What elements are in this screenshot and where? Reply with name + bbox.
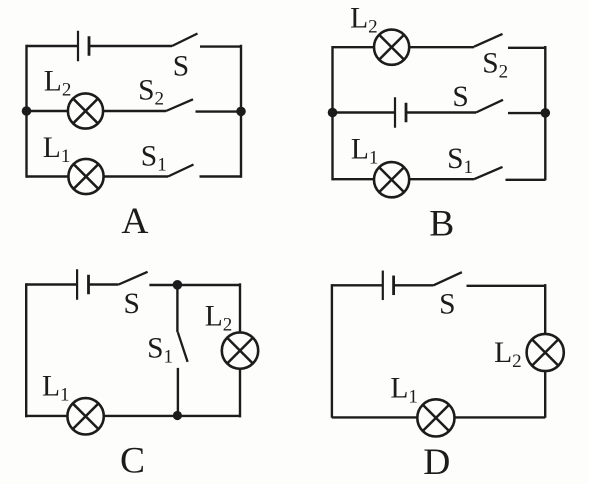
circuit B: switch S lever (open) [476,100,503,113]
circuit D: switch S lever (open) [434,272,462,285]
circuit A: junction node right [236,107,246,117]
circuit D: lamp L1 [417,399,454,436]
circuit A: switch S2 lever (open) [166,99,193,111]
circuit A: middle wire from left node to lamp L2 [27,110,69,112]
circuit B: switch S1 lever (open) [474,167,503,179]
circuit B: junction node left [328,108,338,118]
circuit D: battery [383,271,394,301]
svg-text:S: S [173,50,189,82]
circuit A: right rail wire [240,45,242,178]
circuit B: battery [395,97,406,128]
circuit C: bottom wire from lamp L1 to right rail [104,415,240,417]
circuit D: bottom wire from left rail to lamp L1 [332,416,417,418]
circuit A: battery [78,31,89,62]
circuit C: switch S lever (open) [119,272,148,285]
circuit C: lamp L1 [67,398,103,434]
circuit C: top wire from switch S to junction node [149,284,177,286]
circuit B: bottom wire from switch S1 to right rail [506,179,546,181]
circuit A: bottom wire from switch S1 to right rail [200,175,242,177]
circuit B: middle wire from battery to switch S [406,111,476,113]
circuit A: middle wire from switch S2 to right node [196,110,242,112]
circuit C: switch S1 lever (open) [178,332,188,362]
circuit A: top wire from left rail to battery [27,45,79,47]
circuit C: middle branch upper wire [176,285,178,333]
circuit B: bottom wire from lamp L1 to switch S1 [409,178,474,180]
svg-text:A: A [121,201,148,242]
circuit C: top wire from left rail to battery [26,283,77,285]
circuit C: top wire from junction node to right rail [177,284,240,286]
circuit A: left rail wire [25,45,27,178]
circuit B: junction node right [541,108,551,118]
circuit B: lamp L2 [374,30,409,65]
circuit A: bottom wire from left rail to lamp L1 [27,175,69,177]
circuit C: junction node bottom [173,411,182,420]
circuit C: top wire from battery to switch S [89,283,119,285]
circuit B: middle wire from switch S to right node [508,112,545,114]
svg-text:D: D [423,442,450,483]
circuit B: bottom wire from left rail to lamp L1 [333,178,375,180]
svg-text:S: S [452,81,468,113]
circuit B: top wire from left rail to lamp L2 [333,46,375,48]
svg-text:C: C [120,441,145,482]
circuit D: right rail lower wire [544,371,546,418]
svg-text:S: S [124,288,140,320]
circuit D: lamp L2 [527,334,564,371]
circuit B: right rail wire [544,46,546,180]
circuit C: left rail wire [25,283,27,417]
circuit B: middle wire from left node to battery [333,111,396,113]
circuit A: junction node left [22,106,32,116]
circuit C: right rail upper wire [239,283,241,332]
svg-text:S: S [439,289,455,321]
circuit B: left rail wire [331,46,333,180]
circuit A: lamp L2 [68,93,103,128]
circuit D: bottom wire from lamp L1 to right rail [455,416,546,418]
circuit C: middle branch lower wire [177,368,179,416]
circuit B: switch S2 lever (open) [474,34,503,47]
circuit D: left rail wire [331,284,333,418]
circuit A: switch S lever (open) [172,34,198,47]
circuit A: middle wire from lamp L2 to switch S2 [103,110,166,112]
circuit C: battery [77,269,88,300]
circuit C: bottom wire from left rail to lamp L1 [26,415,67,417]
circuit B: lamp L1 [374,162,409,197]
circuit D: top wire from switch S to right rail [467,285,546,287]
circuit A: bottom wire from lamp L1 to switch S1 [104,175,168,177]
circuit B: top wire from lamp L2 to switch S2 [409,46,474,48]
circuit A: switch S1 lever (open) [168,165,194,177]
circuit D: top wire from left rail to battery [332,284,383,286]
circuit A: top wire from battery to switch S [89,45,172,47]
circuit D: right rail upper wire [544,284,546,334]
circuit C: junction node top [173,280,183,290]
circuit A: top wire from switch S to right rail [200,45,241,47]
circuit C: right rail lower wire [239,369,241,418]
circuit C: lamp L2 [222,332,258,368]
circuit D: top wire from battery to switch S [394,284,434,286]
circuit B: top wire from switch S2 to right rail [508,47,545,49]
circuit A: lamp L1 [68,159,103,194]
svg-text:B: B [429,204,454,245]
